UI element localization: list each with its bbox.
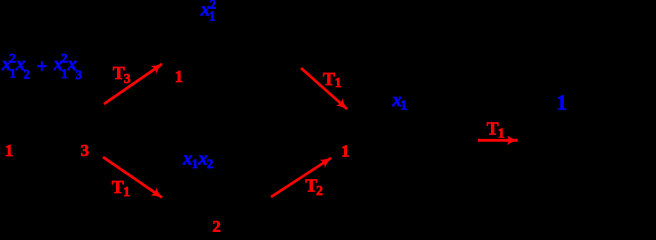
svg-text:1: 1 xyxy=(556,91,567,115)
arrow T1 (horizontal, right) xyxy=(478,139,518,142)
svg-text:1: 1 xyxy=(175,67,184,86)
svg-text:2: 2 xyxy=(24,66,31,81)
svg-text:1: 1 xyxy=(400,98,407,113)
svg-text:T: T xyxy=(323,69,335,89)
arrow label T2 xyxy=(305,176,323,199)
arrow label T3 xyxy=(113,63,131,87)
node label x1*x2 (bottom monomial) xyxy=(182,148,213,171)
svg-text:T: T xyxy=(487,119,499,139)
svg-text:2: 2 xyxy=(212,217,221,232)
svg-text:1: 1 xyxy=(5,141,14,160)
svg-text:1: 1 xyxy=(335,76,342,91)
svg-text:2: 2 xyxy=(316,184,323,199)
svg-text:T: T xyxy=(112,177,124,197)
svg-text:1: 1 xyxy=(209,10,216,25)
svg-text:3: 3 xyxy=(75,67,82,82)
arrow T3 (up-right from left polynomial) xyxy=(104,64,162,104)
svg-text:1: 1 xyxy=(192,156,199,171)
svg-text:1: 1 xyxy=(123,185,130,200)
arrow T1 (down-right, bottom left) xyxy=(103,157,162,198)
arrow T2 (up-right) xyxy=(271,158,331,197)
svg-text:1: 1 xyxy=(498,127,505,142)
arrow label T1 (top middle) xyxy=(323,69,342,91)
svg-text:+: + xyxy=(36,57,47,78)
svg-text:2: 2 xyxy=(207,156,214,171)
svg-text:3: 3 xyxy=(81,141,90,160)
arrow T1 (down-right from top monomial) xyxy=(301,68,347,109)
node label x1^2 (top monomial) xyxy=(200,0,217,25)
node label x1^2*x2 + x1^2*x3 (left polynomial) xyxy=(1,50,83,82)
node label x1 (middle monomial) xyxy=(391,90,407,113)
svg-text:3: 3 xyxy=(124,72,131,87)
svg-text:1: 1 xyxy=(341,141,350,160)
arrow label T1 (horizontal) xyxy=(487,119,505,142)
arrow label T1 (bottom left) xyxy=(112,177,130,200)
